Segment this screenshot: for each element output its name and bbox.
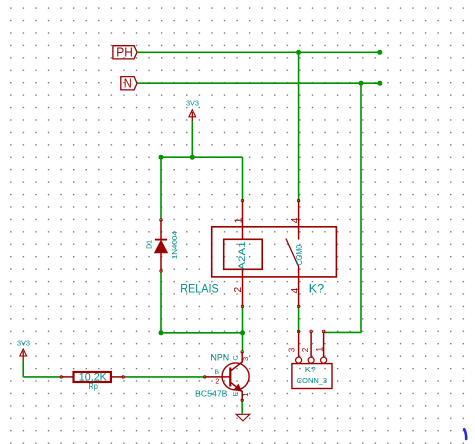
relay coil pin 2 line	[242, 269, 244, 306]
transistor pin number 1	[241, 393, 250, 397]
wire bottom horizontal	[161, 332, 243, 334]
relay pin number 4 bottom	[290, 288, 301, 294]
transistor pin letter E	[232, 391, 239, 396]
wire N down to CONN pin1	[324, 83, 361, 332]
junction PH/contact	[296, 50, 301, 55]
wire to diode top	[160, 157, 162, 219]
wire coil pin2 down	[242, 307, 244, 333]
svg-text:1N4004: 1N4004	[170, 231, 179, 259]
transistor pin letter C	[232, 356, 239, 361]
svg-text:K?: K?	[305, 365, 316, 374]
junction diode bottom	[159, 330, 164, 335]
svg-text:1: 1	[241, 393, 250, 397]
stray blue mark	[464, 429, 466, 439]
transistor collector pin	[241, 351, 244, 354]
svg-text:4: 4	[290, 217, 301, 223]
relay contact blade	[286, 239, 299, 268]
ground symbol	[236, 414, 250, 421]
connector CONN_3 pin 2	[310, 330, 313, 333]
svg-text:C: C	[232, 356, 239, 361]
junction N/vertical	[359, 81, 364, 86]
relay coil pin 1 line	[242, 201, 244, 240]
connector body box	[292, 364, 332, 389]
svg-text:2: 2	[301, 347, 310, 352]
global label PH	[113, 45, 137, 60]
svg-text:N: N	[124, 76, 132, 91]
wire N horizontal	[137, 82, 380, 84]
relay coil label A2A1	[237, 241, 248, 270]
connector CONN_3 pin 1	[322, 330, 325, 333]
svg-text:B: B	[215, 369, 220, 376]
resistor Rp left stub	[60, 376, 63, 379]
relay pin number 2	[233, 287, 244, 293]
junction PH end	[377, 50, 382, 55]
transistor pin number 3	[241, 357, 250, 361]
power symbol 3V3 top	[186, 98, 199, 121]
svg-text:NPN: NPN	[211, 351, 230, 362]
transistor emitter arrow	[234, 384, 242, 391]
wire top horizontal bus	[161, 156, 243, 158]
wire 3V3 bottom drop	[22, 360, 24, 377]
svg-text:Rp: Rp	[88, 381, 98, 391]
svg-text:E: E	[232, 391, 239, 396]
connector CONN_3 pin 3	[297, 330, 300, 333]
svg-text:2: 2	[215, 377, 219, 386]
relay pin number 4 top	[290, 217, 301, 223]
relay pin number 1	[233, 217, 244, 223]
svg-text:1: 1	[233, 217, 244, 223]
junction N end	[377, 81, 382, 86]
junction collector node	[240, 330, 245, 335]
svg-text:3V3: 3V3	[17, 339, 30, 348]
junction bus left corner	[159, 155, 164, 160]
svg-text:3: 3	[241, 357, 250, 361]
svg-text:K?: K?	[309, 282, 325, 296]
transistor emitter pin	[230, 382, 242, 400]
svg-text:A2A1: A2A1	[237, 241, 248, 270]
wire 3V3 drop	[191, 121, 193, 157]
relay coil box	[224, 239, 263, 269]
diode D1 reference label	[144, 240, 153, 249]
svg-text:COM0: COM0	[294, 245, 304, 266]
relay contact name COM0	[294, 245, 304, 266]
wire to collector	[242, 333, 244, 352]
diode value 1N4004	[170, 231, 179, 259]
wire contact to CONN pin3	[298, 307, 300, 332]
transistor base pin	[203, 376, 206, 379]
relay contact pin 4 top line	[298, 201, 300, 240]
svg-text:4: 4	[290, 288, 301, 294]
wire diode bottom	[160, 271, 162, 333]
svg-text:BC547B: BC547B	[195, 389, 228, 398]
connector pin number 1	[315, 347, 325, 352]
svg-text:3: 3	[288, 347, 297, 352]
power symbol 3V3 bottom	[17, 339, 30, 361]
svg-text:2: 2	[233, 287, 244, 293]
wire to resistor left	[23, 376, 61, 378]
wire resistor to base	[123, 376, 205, 378]
connector pin number 2	[301, 347, 310, 352]
global label N	[121, 76, 137, 91]
connector pin number 3	[288, 347, 297, 352]
relay contact pin 4 bottom line	[298, 267, 300, 306]
transistor base bar	[229, 368, 231, 387]
wire to coil pin1	[242, 157, 244, 200]
svg-text:D1: D1	[144, 240, 153, 249]
svg-text:PH: PH	[116, 45, 133, 60]
wire emitter to ground	[241, 400, 243, 413]
svg-text:CONN_3: CONN_3	[297, 376, 327, 385]
wire PH to relay contact	[298, 52, 300, 200]
resistor Rp right stub	[111, 376, 123, 378]
svg-text:RELAIS: RELAIS	[180, 282, 219, 296]
transistor body circle	[222, 363, 249, 390]
svg-text:3V3: 3V3	[186, 98, 199, 107]
svg-text:1: 1	[315, 347, 325, 352]
wire PH horizontal	[137, 51, 380, 53]
relay outline box	[212, 227, 337, 277]
diode D1 1N4004	[155, 219, 168, 273]
resistor Rp body	[74, 372, 111, 382]
junction 3V3 bus	[190, 155, 195, 160]
